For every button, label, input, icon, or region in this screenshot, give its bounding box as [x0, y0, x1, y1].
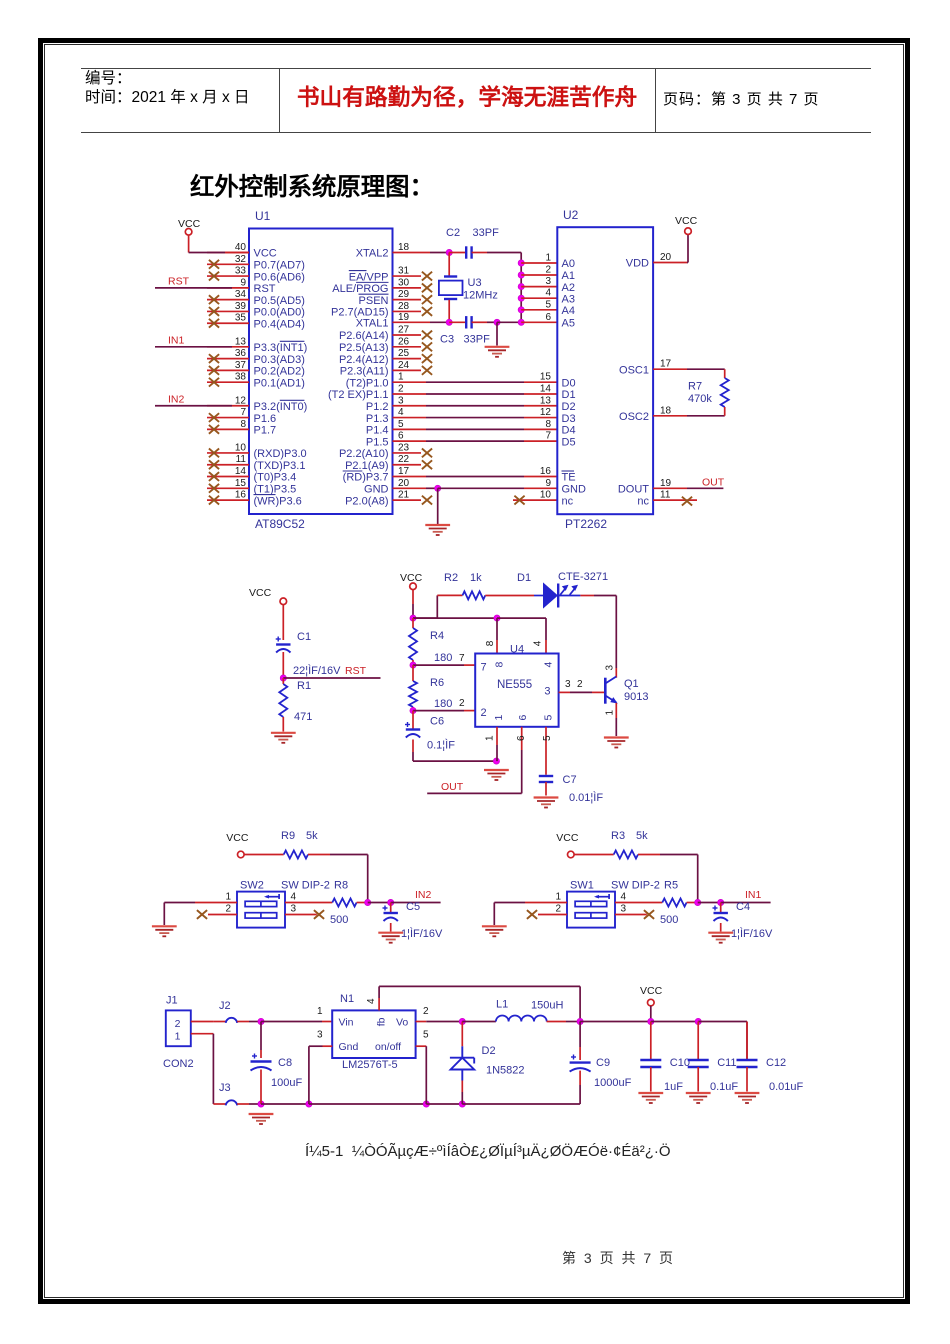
svg-text:500: 500 — [330, 914, 348, 926]
svg-text:3: 3 — [545, 276, 551, 287]
svg-text:1¦ÌF/16V: 1¦ÌF/16V — [731, 927, 773, 940]
svg-text:P1.5: P1.5 — [366, 436, 389, 448]
svg-text:1: 1 — [545, 253, 551, 264]
svg-text:7: 7 — [481, 662, 487, 674]
svg-text:17: 17 — [660, 359, 672, 370]
svg-text:100uF: 100uF — [271, 1077, 302, 1089]
svg-text:2: 2 — [175, 1018, 181, 1030]
svg-text:C3: C3 — [440, 334, 454, 346]
svg-text:D5: D5 — [562, 436, 576, 448]
svg-text:17: 17 — [398, 466, 410, 477]
svg-text:19: 19 — [660, 478, 672, 489]
svg-text:P0.6(AD6): P0.6(AD6) — [254, 271, 305, 283]
svg-text:15: 15 — [235, 478, 247, 489]
svg-text:3: 3 — [398, 395, 404, 406]
svg-text:3: 3 — [291, 904, 297, 915]
svg-text:R2: R2 — [444, 572, 458, 584]
svg-text:28: 28 — [398, 301, 410, 312]
svg-text:P0.1(AD1): P0.1(AD1) — [254, 377, 305, 389]
svg-text:D1: D1 — [517, 572, 531, 584]
svg-text:9: 9 — [545, 478, 551, 489]
svg-text:6: 6 — [545, 312, 551, 323]
svg-text:(RD)P3.7: (RD)P3.7 — [343, 472, 389, 484]
svg-text:5: 5 — [545, 299, 551, 310]
svg-text:4: 4 — [533, 640, 544, 646]
svg-text:P2.5(A13): P2.5(A13) — [339, 342, 389, 354]
svg-text:Q1: Q1 — [624, 678, 639, 690]
svg-text:24: 24 — [398, 360, 410, 371]
svg-text:P2.4(A12): P2.4(A12) — [339, 354, 389, 366]
svg-text:C2: C2 — [446, 227, 460, 239]
svg-text:7: 7 — [545, 431, 551, 442]
svg-text:21: 21 — [398, 490, 410, 501]
svg-text:33PF: 33PF — [473, 227, 500, 239]
svg-text:2: 2 — [555, 904, 561, 915]
svg-text:R4: R4 — [430, 630, 444, 642]
svg-text:Vin: Vin — [339, 1017, 354, 1029]
svg-text:1000uF: 1000uF — [594, 1077, 632, 1089]
svg-text:VDD: VDD — [626, 258, 649, 270]
svg-text:D1: D1 — [562, 389, 576, 401]
svg-text:PT2262: PT2262 — [565, 517, 607, 531]
svg-text:19: 19 — [398, 312, 410, 323]
svg-text:(RXD)P3.0: (RXD)P3.0 — [254, 448, 307, 460]
svg-text:nc: nc — [562, 495, 574, 507]
svg-text:C12: C12 — [766, 1057, 786, 1069]
svg-text:A5: A5 — [562, 318, 575, 330]
svg-text:5: 5 — [398, 419, 404, 430]
svg-text:R7: R7 — [688, 381, 702, 393]
svg-text:P1.4: P1.4 — [366, 425, 389, 437]
svg-text:4: 4 — [291, 892, 297, 903]
svg-text:14: 14 — [540, 383, 552, 394]
svg-text:2: 2 — [398, 383, 404, 394]
svg-text:(T2)P1.0: (T2)P1.0 — [346, 377, 389, 389]
svg-text:1uF: 1uF — [664, 1081, 683, 1093]
svg-text:C10: C10 — [670, 1057, 690, 1069]
svg-text:34: 34 — [235, 289, 247, 300]
svg-text:P1.2: P1.2 — [366, 401, 389, 413]
svg-text:22: 22 — [398, 454, 410, 465]
svg-text:Gnd: Gnd — [339, 1041, 359, 1053]
svg-text:SW2: SW2 — [240, 880, 264, 892]
svg-text:SW DIP-2: SW DIP-2 — [281, 880, 330, 892]
svg-text:15: 15 — [540, 372, 552, 383]
svg-text:36: 36 — [235, 348, 247, 359]
svg-text:J3: J3 — [219, 1082, 231, 1094]
svg-text:R5: R5 — [664, 880, 678, 892]
svg-text:3: 3 — [544, 686, 550, 698]
svg-text:P1.6: P1.6 — [254, 413, 277, 425]
svg-text:P0.0(AD0): P0.0(AD0) — [254, 307, 305, 319]
svg-text:2: 2 — [225, 904, 231, 915]
svg-text:7: 7 — [240, 407, 246, 418]
svg-text:1N5822: 1N5822 — [486, 1065, 525, 1077]
svg-text:8: 8 — [493, 662, 505, 668]
svg-text:180: 180 — [434, 652, 452, 664]
svg-text:5: 5 — [542, 715, 554, 721]
svg-text:IN2: IN2 — [168, 393, 185, 405]
svg-text:SW DIP-2: SW DIP-2 — [611, 880, 660, 892]
svg-text:C1: C1 — [297, 631, 311, 643]
svg-text:IN1: IN1 — [168, 334, 185, 346]
svg-text:1k: 1k — [470, 572, 482, 584]
svg-text:U1: U1 — [255, 209, 271, 223]
svg-text:8: 8 — [545, 419, 551, 430]
svg-text:3: 3 — [604, 665, 615, 671]
svg-text:38: 38 — [235, 372, 247, 383]
svg-text:P3.3(INT1): P3.3(INT1) — [254, 342, 308, 354]
svg-text:(WR)P3.6: (WR)P3.6 — [254, 495, 302, 507]
svg-text:TE: TE — [562, 472, 576, 484]
svg-text:150uH: 150uH — [531, 1000, 563, 1012]
svg-text:GND: GND — [562, 484, 587, 496]
svg-text:2: 2 — [577, 679, 583, 690]
svg-text:26: 26 — [398, 336, 410, 347]
svg-text:D0: D0 — [562, 377, 576, 389]
svg-text:(TXD)P3.1: (TXD)P3.1 — [254, 460, 306, 472]
svg-text:27: 27 — [398, 325, 410, 336]
svg-text:14: 14 — [235, 466, 247, 477]
svg-text:D2: D2 — [562, 401, 576, 413]
svg-text:NE555: NE555 — [497, 679, 532, 691]
svg-text:P1.7: P1.7 — [254, 425, 277, 437]
svg-text:(T0)P3.4: (T0)P3.4 — [254, 472, 297, 484]
svg-text:6: 6 — [517, 715, 529, 721]
svg-text:J2: J2 — [219, 1000, 231, 1012]
svg-text:2: 2 — [459, 698, 465, 709]
svg-text:1: 1 — [604, 710, 615, 716]
svg-text:500: 500 — [660, 914, 678, 926]
svg-text:11: 11 — [660, 490, 671, 501]
svg-text:7: 7 — [459, 653, 465, 664]
svg-text:0.1uF: 0.1uF — [710, 1081, 738, 1093]
svg-text:3: 3 — [317, 1030, 323, 1041]
svg-text:nc: nc — [637, 495, 649, 507]
svg-text:U4: U4 — [510, 644, 524, 656]
svg-text:31: 31 — [398, 266, 410, 277]
svg-text:A3: A3 — [562, 293, 575, 305]
svg-text:13: 13 — [540, 395, 552, 406]
svg-text:5k: 5k — [306, 830, 318, 842]
svg-text:Vo: Vo — [396, 1017, 408, 1029]
svg-text:(T1)P3.5: (T1)P3.5 — [254, 484, 297, 496]
svg-text:20: 20 — [660, 252, 672, 263]
svg-text:R3: R3 — [611, 830, 625, 842]
svg-text:GND: GND — [364, 484, 389, 496]
svg-text:5: 5 — [542, 735, 553, 741]
svg-text:C4: C4 — [736, 901, 750, 913]
svg-text:30: 30 — [398, 277, 410, 288]
svg-text:1: 1 — [493, 715, 505, 721]
svg-text:P0.3(AD3): P0.3(AD3) — [254, 354, 305, 366]
svg-text:2: 2 — [423, 1006, 429, 1017]
svg-text:XTAL1: XTAL1 — [356, 318, 389, 330]
svg-text:DOUT: DOUT — [618, 484, 649, 496]
svg-text:18: 18 — [660, 405, 672, 416]
svg-text:P0.7(AD7): P0.7(AD7) — [254, 259, 305, 271]
svg-text:1: 1 — [225, 892, 231, 903]
svg-text:C11: C11 — [717, 1057, 736, 1069]
svg-text:C6: C6 — [430, 716, 444, 728]
svg-text:P3.2(INT0): P3.2(INT0) — [254, 401, 308, 413]
svg-text:ALE/PROG: ALE/PROG — [332, 283, 388, 295]
svg-text:33PF: 33PF — [464, 334, 491, 346]
svg-text:1: 1 — [485, 735, 496, 741]
svg-text:32: 32 — [235, 254, 247, 265]
svg-text:P2.2(A10): P2.2(A10) — [339, 448, 389, 460]
svg-text:VCC: VCC — [249, 587, 272, 599]
svg-text:D2: D2 — [482, 1045, 496, 1057]
svg-text:4: 4 — [398, 407, 404, 418]
svg-text:L1: L1 — [496, 999, 508, 1011]
svg-text:471: 471 — [294, 711, 312, 723]
svg-text:XTAL2: XTAL2 — [356, 248, 389, 260]
svg-text:SW1: SW1 — [570, 880, 594, 892]
svg-text:R6: R6 — [430, 677, 444, 689]
svg-text:VCC: VCC — [254, 248, 277, 260]
svg-text:P2.3(A11): P2.3(A11) — [340, 366, 389, 378]
svg-text:9013: 9013 — [624, 691, 648, 703]
svg-text:0.1¦ÌF: 0.1¦ÌF — [427, 739, 455, 752]
svg-text:VCC: VCC — [640, 985, 663, 997]
svg-text:R1: R1 — [297, 680, 311, 692]
svg-text:VCC: VCC — [178, 218, 201, 230]
svg-text:10: 10 — [235, 442, 247, 453]
svg-text:A0: A0 — [562, 258, 575, 270]
svg-text:12: 12 — [540, 407, 552, 418]
svg-text:1¦ÌF/16V: 1¦ÌF/16V — [401, 927, 443, 940]
svg-text:16: 16 — [540, 466, 552, 477]
svg-text:4: 4 — [366, 998, 377, 1004]
svg-text:20: 20 — [398, 478, 410, 489]
svg-text:CON2: CON2 — [163, 1058, 194, 1070]
svg-text:37: 37 — [235, 360, 247, 371]
svg-text:VCC: VCC — [400, 572, 423, 584]
svg-text:P0.2(AD2): P0.2(AD2) — [254, 366, 305, 378]
svg-text:A2: A2 — [562, 282, 575, 294]
svg-text:33: 33 — [235, 266, 247, 277]
svg-text:12: 12 — [235, 395, 247, 406]
svg-text:C5: C5 — [406, 901, 420, 913]
svg-text:fb: fb — [376, 1017, 388, 1026]
svg-text:C8: C8 — [278, 1057, 292, 1069]
svg-text:LM2576T-5: LM2576T-5 — [342, 1059, 398, 1071]
svg-text:5k: 5k — [636, 830, 648, 842]
svg-text:CTE-3271: CTE-3271 — [558, 571, 608, 583]
svg-text:P2.0(A8): P2.0(A8) — [345, 495, 388, 507]
svg-text:D4: D4 — [562, 425, 576, 437]
svg-text:6: 6 — [398, 431, 404, 442]
svg-text:D3: D3 — [562, 413, 576, 425]
svg-text:23: 23 — [398, 442, 410, 453]
svg-text:29: 29 — [398, 289, 410, 300]
svg-text:AT89C52: AT89C52 — [255, 517, 305, 531]
svg-text:8: 8 — [485, 640, 496, 646]
svg-text:C9: C9 — [596, 1057, 610, 1069]
svg-text:4: 4 — [621, 892, 627, 903]
svg-text:OUT: OUT — [441, 781, 464, 793]
svg-text:IN1: IN1 — [745, 889, 762, 901]
svg-text:P0.4(AD4): P0.4(AD4) — [254, 318, 305, 330]
svg-text:R9: R9 — [281, 830, 295, 842]
svg-text:0.01uF: 0.01uF — [769, 1081, 804, 1093]
svg-text:RST: RST — [168, 275, 190, 287]
svg-text:13: 13 — [235, 336, 247, 347]
svg-text:U2: U2 — [563, 208, 579, 222]
svg-text:RST: RST — [254, 283, 276, 295]
svg-text:1: 1 — [398, 372, 404, 383]
svg-text:8: 8 — [240, 419, 246, 430]
svg-text:C7: C7 — [563, 774, 577, 786]
svg-text:2: 2 — [481, 707, 487, 719]
svg-text:6: 6 — [516, 735, 527, 741]
svg-text:P2.6(A14): P2.6(A14) — [339, 330, 389, 342]
svg-text:A4: A4 — [562, 305, 575, 317]
svg-text:4: 4 — [543, 662, 555, 668]
svg-text:U3: U3 — [468, 277, 482, 289]
svg-text:1: 1 — [317, 1006, 323, 1017]
svg-text:25: 25 — [398, 348, 410, 359]
svg-text:1: 1 — [555, 892, 561, 903]
svg-text:PSEN: PSEN — [359, 295, 389, 307]
svg-text:3: 3 — [621, 904, 627, 915]
svg-text:VCC: VCC — [675, 215, 698, 227]
svg-text:12MHz: 12MHz — [463, 290, 498, 302]
svg-text:P2.1(A9): P2.1(A9) — [345, 460, 388, 472]
svg-text:IN2: IN2 — [415, 889, 432, 901]
svg-text:on/off: on/off — [375, 1041, 401, 1053]
svg-text:18: 18 — [398, 242, 410, 253]
svg-text:P0.5(AD5): P0.5(AD5) — [254, 295, 305, 307]
svg-text:EA/VPP: EA/VPP — [349, 271, 389, 283]
svg-text:22¦ÌF/16V: 22¦ÌF/16V — [293, 664, 341, 677]
svg-text:10: 10 — [540, 490, 552, 501]
svg-text:470k: 470k — [688, 393, 712, 405]
svg-text:N1: N1 — [340, 993, 354, 1005]
svg-text:J1: J1 — [166, 995, 178, 1007]
svg-text:3: 3 — [565, 679, 571, 690]
svg-text:A1: A1 — [562, 270, 575, 282]
svg-text:2: 2 — [545, 265, 551, 276]
svg-text:39: 39 — [235, 301, 247, 312]
svg-text:OSC1: OSC1 — [619, 364, 649, 376]
svg-text:P1.3: P1.3 — [366, 413, 389, 425]
svg-text:180: 180 — [434, 698, 452, 710]
svg-text:0.01¦ÌF: 0.01¦ÌF — [569, 791, 603, 804]
svg-text:4: 4 — [545, 288, 551, 299]
svg-text:VCC: VCC — [556, 832, 579, 844]
svg-text:35: 35 — [235, 313, 247, 324]
svg-text:9: 9 — [240, 277, 246, 288]
svg-text:11: 11 — [236, 454, 247, 465]
svg-text:RST: RST — [345, 665, 367, 677]
svg-text:OUT: OUT — [702, 476, 725, 488]
svg-text:16: 16 — [235, 490, 247, 501]
svg-text:5: 5 — [423, 1030, 429, 1041]
svg-text:VCC: VCC — [226, 832, 249, 844]
svg-text:OSC2: OSC2 — [619, 411, 649, 423]
svg-text:40: 40 — [235, 242, 247, 253]
svg-text:(T2 EX)P1.1: (T2 EX)P1.1 — [328, 389, 389, 401]
svg-text:1: 1 — [175, 1031, 181, 1043]
svg-text:R8: R8 — [334, 880, 348, 892]
